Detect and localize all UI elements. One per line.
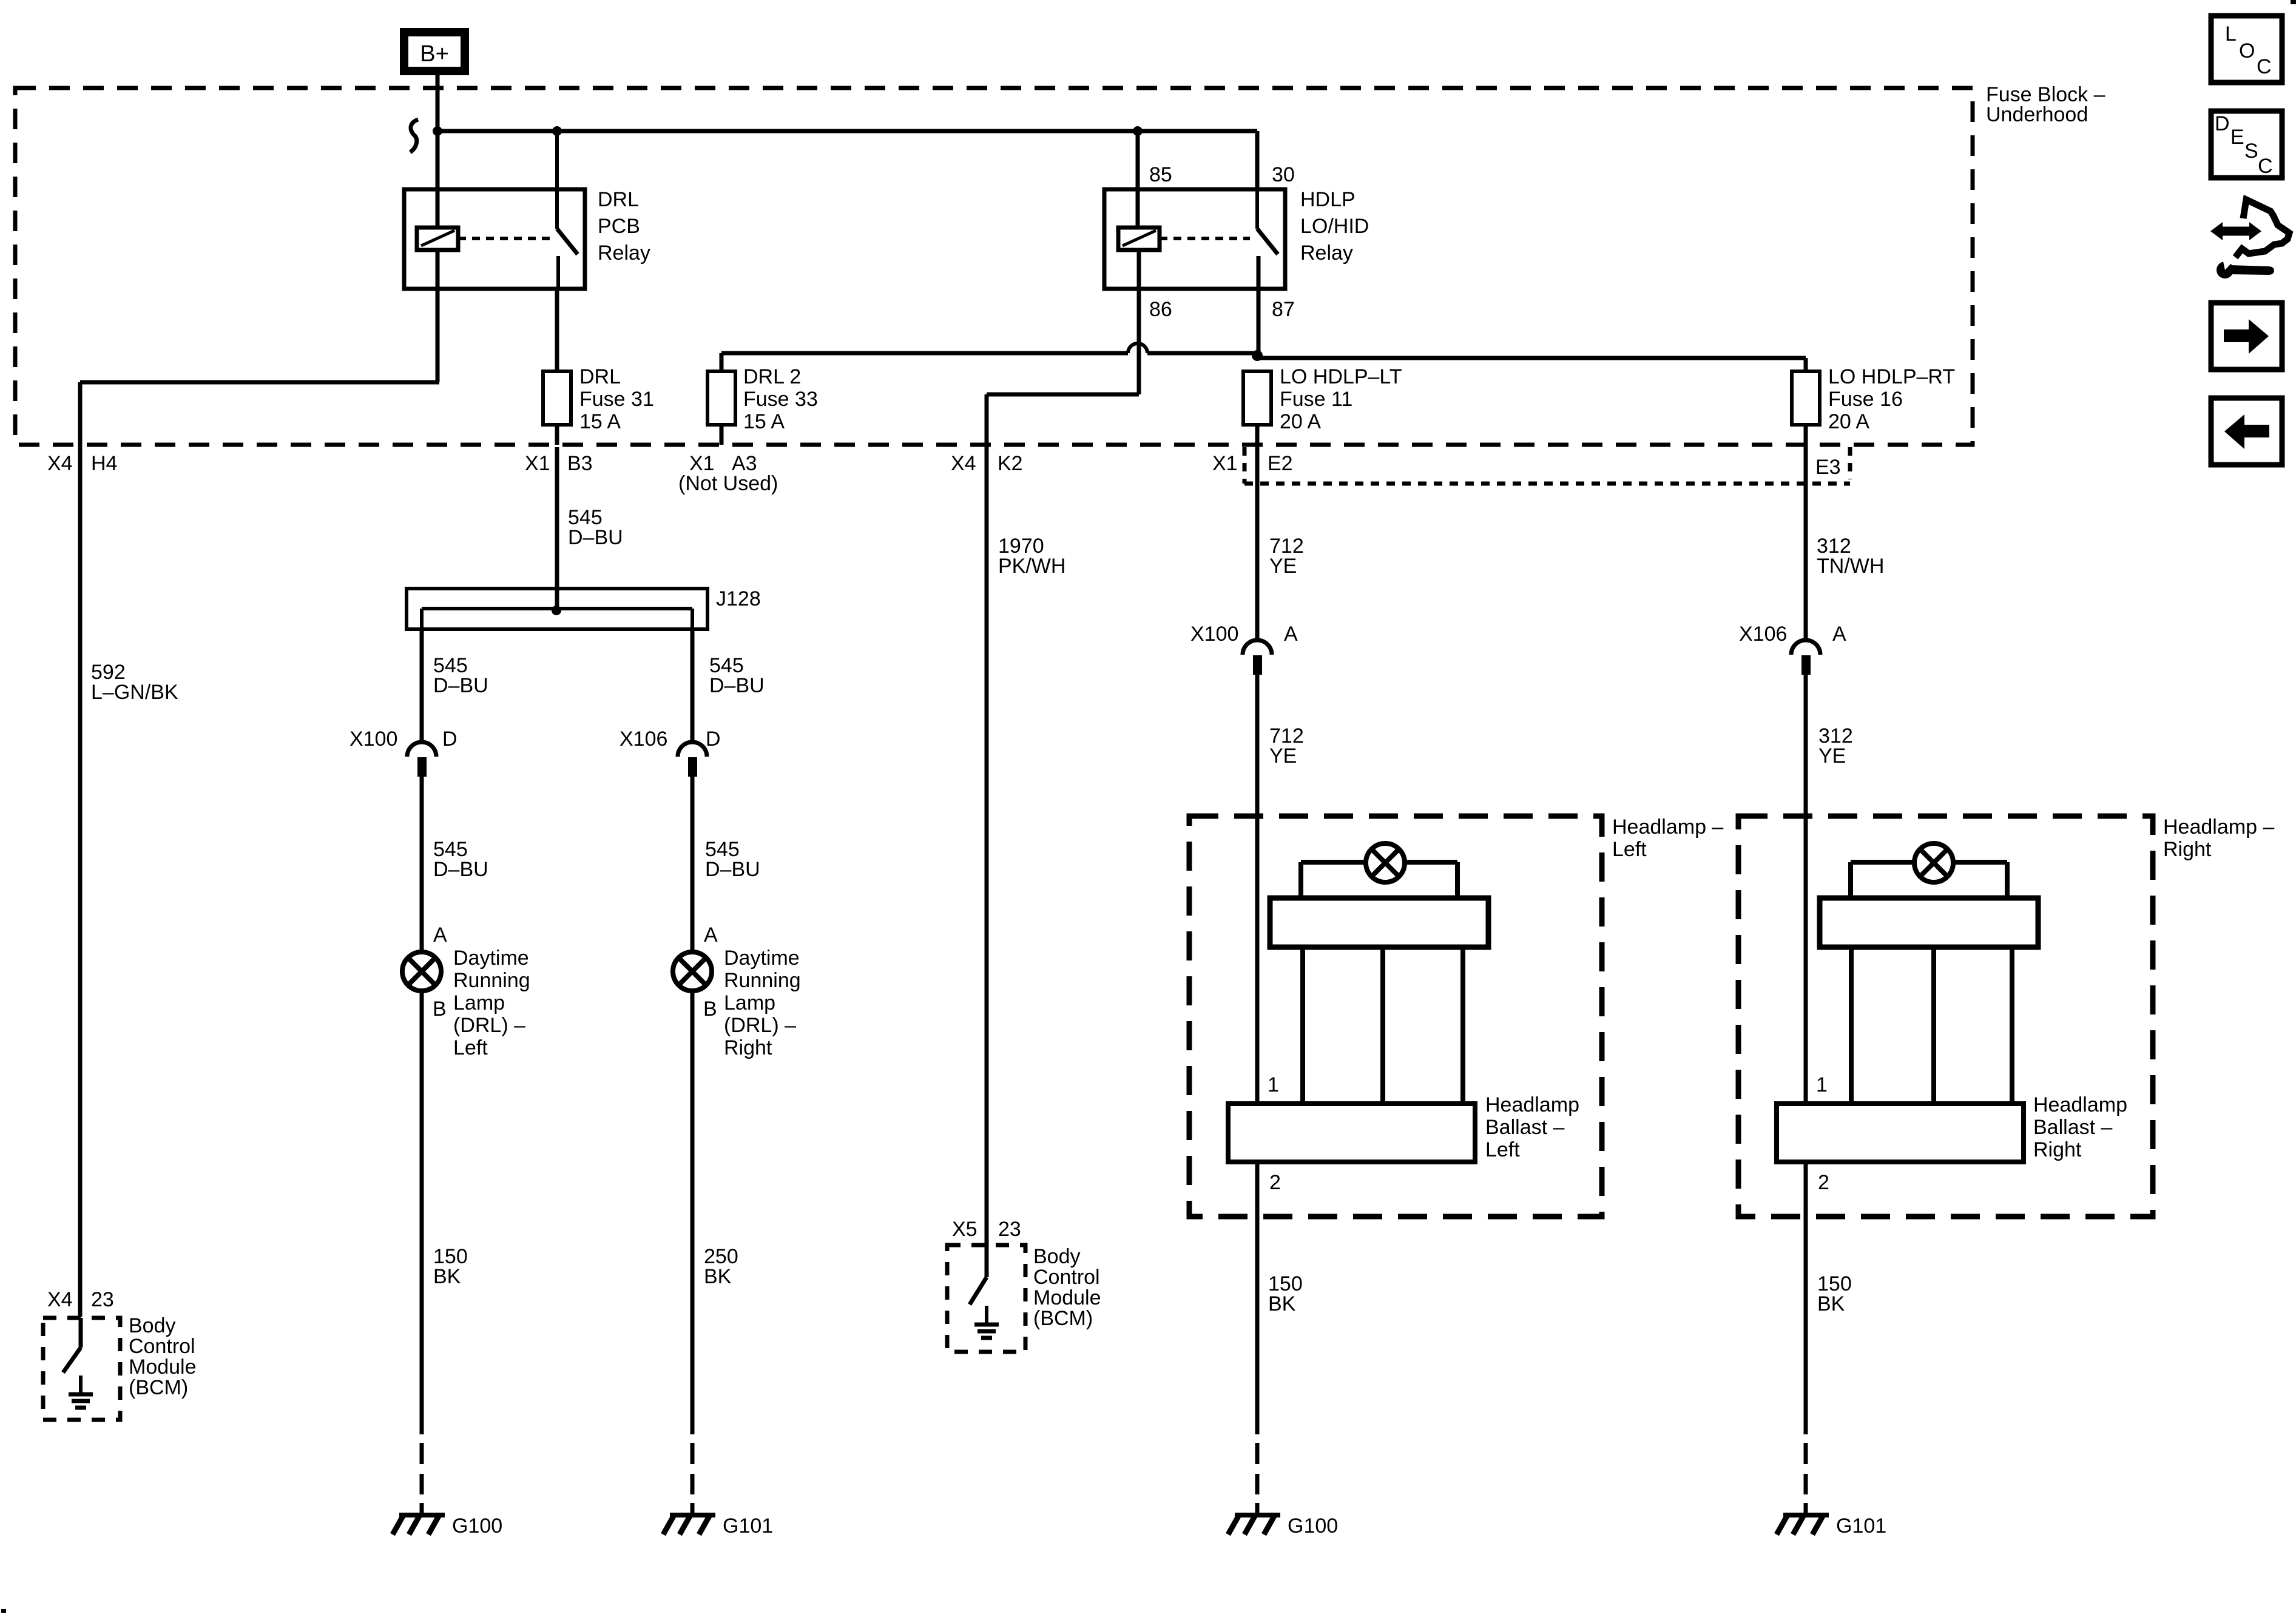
svg-text:Fuse 33: Fuse 33 bbox=[743, 388, 818, 411]
wire X106 A to headlamp ballast right bbox=[1804, 675, 1808, 1104]
svg-text:Right: Right bbox=[2163, 838, 2212, 861]
svg-text:X106: X106 bbox=[1739, 623, 1787, 646]
wire 312 TN/WH fuse16 to X106 A bbox=[1804, 447, 1808, 641]
wire X100 A to headlamp ballast left bbox=[1255, 675, 1260, 1104]
bus wire from B+ across top bbox=[437, 129, 1257, 133]
fuse DRL 2 Fuse 33 15A bbox=[707, 371, 735, 425]
svg-text:G100: G100 bbox=[1288, 1514, 1338, 1538]
svg-text:Body: Body bbox=[1033, 1245, 1081, 1268]
wire 250 BK DRL right to ground bbox=[690, 991, 695, 1434]
svg-text:G100: G100 bbox=[452, 1514, 502, 1538]
svg-text:DRL: DRL bbox=[579, 365, 621, 388]
svg-text:15 A: 15 A bbox=[579, 410, 621, 433]
connector breakout dotted box E2-E3 bbox=[1243, 447, 1247, 484]
svg-text:D–BU: D–BU bbox=[709, 674, 765, 697]
relay switch blade bbox=[1255, 131, 1259, 229]
svg-text:(BCM): (BCM) bbox=[1033, 1307, 1093, 1330]
svg-text:23: 23 bbox=[998, 1218, 1021, 1241]
svg-text:B: B bbox=[433, 998, 447, 1021]
svg-text:Lamp: Lamp bbox=[724, 991, 775, 1014]
svg-text:1: 1 bbox=[1816, 1073, 1828, 1096]
junction node DRL relay 30 feed bbox=[552, 126, 562, 136]
svg-text:A: A bbox=[1832, 623, 1846, 646]
svg-text:O: O bbox=[2239, 39, 2255, 62]
relay coil bbox=[1118, 228, 1160, 250]
connector X106 pin D bbox=[678, 742, 707, 757]
svg-text:X4: X4 bbox=[47, 452, 73, 475]
svg-text:D–BU: D–BU bbox=[433, 858, 488, 881]
BCM left internal switch bbox=[79, 1318, 83, 1348]
svg-text:Running: Running bbox=[453, 969, 530, 992]
svg-text:Module: Module bbox=[129, 1355, 197, 1379]
svg-text:Underhood: Underhood bbox=[1986, 103, 2088, 126]
svg-text:BK: BK bbox=[1817, 1292, 1845, 1315]
svg-text:BK: BK bbox=[704, 1265, 732, 1288]
wire DRL2 fuse feed from relay 87 junction bbox=[721, 351, 1128, 356]
headlamp ballast box bbox=[1228, 1104, 1475, 1162]
svg-text:LO HDLP–LT: LO HDLP–LT bbox=[1280, 365, 1402, 388]
fuse block underhood dashed box bbox=[15, 88, 1973, 445]
svg-text:A: A bbox=[433, 923, 447, 947]
BCM left internal ground bbox=[79, 1376, 83, 1394]
svg-text:20 A: 20 A bbox=[1280, 410, 1321, 433]
svg-text:HDLP: HDLP bbox=[1300, 188, 1356, 211]
wire 150 BK headlamp left to ground bbox=[1255, 1162, 1260, 1434]
wire 1970 PK/WH to BCM bbox=[985, 447, 989, 1246]
junction node at B+ bbox=[433, 126, 442, 136]
svg-text:Fuse 11: Fuse 11 bbox=[1280, 388, 1352, 411]
svg-text:X4: X4 bbox=[47, 1288, 73, 1311]
svg-text:C: C bbox=[2258, 155, 2273, 178]
splice hook symbol bbox=[410, 120, 418, 152]
wire HDLP 86 to X4 K2 (coil return) bbox=[1137, 250, 1141, 394]
svg-text:S: S bbox=[2244, 140, 2258, 163]
relay coil bbox=[417, 228, 458, 250]
svg-text:L–GN/BK: L–GN/BK bbox=[91, 681, 178, 704]
splice pack J128 bbox=[407, 589, 707, 629]
svg-text:30: 30 bbox=[1272, 163, 1295, 186]
svg-text:E2: E2 bbox=[1268, 452, 1293, 475]
wire X106 D to DRL lamp right bbox=[690, 777, 695, 952]
svg-text:A: A bbox=[704, 923, 718, 947]
svg-text:2: 2 bbox=[1818, 1171, 1829, 1194]
wire 150 BK DRL left to ground bbox=[420, 991, 424, 1434]
svg-text:85: 85 bbox=[1149, 163, 1172, 186]
svg-text:Body: Body bbox=[129, 1314, 176, 1337]
lamp Daytime Running Lamp DRL Left bbox=[402, 952, 441, 991]
relay box bbox=[404, 189, 585, 289]
headlamp dashed box (Headlamp – Right) bbox=[1738, 816, 2153, 1217]
svg-text:1: 1 bbox=[1268, 1073, 1279, 1096]
relay switch blade bbox=[555, 131, 559, 229]
battery feed B+ terminal bbox=[404, 32, 465, 71]
ground G101 left-branch bbox=[670, 1513, 715, 1517]
svg-text:X106: X106 bbox=[620, 727, 667, 751]
wire 150 BK headlamp right to ground bbox=[1804, 1162, 1808, 1434]
wire J128 to X106 D bbox=[690, 629, 695, 743]
svg-text:LO/HID: LO/HID bbox=[1300, 215, 1369, 238]
svg-text:Ballast –: Ballast – bbox=[1485, 1116, 1564, 1139]
svg-text:Fuse 16: Fuse 16 bbox=[1828, 388, 1903, 411]
svg-text:(DRL) –: (DRL) – bbox=[724, 1014, 796, 1037]
svg-text:BK: BK bbox=[433, 1265, 461, 1288]
svg-text:X1: X1 bbox=[1212, 452, 1238, 475]
svg-text:DRL: DRL bbox=[598, 188, 639, 211]
svg-text:E: E bbox=[2230, 126, 2244, 149]
connector X100 pin A bbox=[1243, 640, 1272, 655]
svg-text:2: 2 bbox=[1269, 1171, 1281, 1194]
icon car diagnosis with wrench bbox=[2235, 200, 2289, 257]
HID burner lamp element bbox=[1366, 843, 1405, 882]
svg-text:Headlamp: Headlamp bbox=[2033, 1093, 2127, 1116]
svg-text:(BCM): (BCM) bbox=[129, 1376, 188, 1399]
svg-text:Relay: Relay bbox=[598, 241, 650, 265]
junction node relay 87 output bbox=[1252, 350, 1263, 361]
svg-text:Headlamp: Headlamp bbox=[1485, 1093, 1579, 1116]
svg-text:YE: YE bbox=[1269, 744, 1297, 768]
svg-text:Control: Control bbox=[129, 1335, 195, 1358]
svg-text:D: D bbox=[706, 727, 721, 751]
ground lead dashed G101 bbox=[690, 1443, 695, 1464]
svg-text:TN/WH: TN/WH bbox=[1817, 555, 1884, 578]
icon box arrow left bbox=[2211, 398, 2282, 465]
ground lead dashed headlamp left bbox=[1255, 1443, 1260, 1464]
svg-text:Left: Left bbox=[453, 1036, 488, 1059]
svg-text:Lamp: Lamp bbox=[453, 991, 505, 1014]
svg-text:87: 87 bbox=[1272, 298, 1295, 321]
ground G101 right-instance bbox=[1783, 1513, 1829, 1517]
svg-text:B+: B+ bbox=[420, 41, 449, 67]
svg-text:D–BU: D–BU bbox=[568, 526, 623, 549]
relay coil-switch dashed link bbox=[458, 237, 550, 240]
HID burner cap bbox=[1270, 898, 1488, 947]
svg-text:PK/WH: PK/WH bbox=[998, 555, 1065, 578]
svg-text:X1: X1 bbox=[525, 452, 550, 475]
icon box DESC bbox=[2211, 111, 2282, 178]
wire 592 L-GN/BK to BCM bbox=[78, 447, 83, 1317]
connector X106 pin A bbox=[1791, 640, 1820, 655]
svg-text:Module: Module bbox=[1033, 1286, 1101, 1309]
svg-text:H4: H4 bbox=[91, 452, 117, 475]
svg-text:DRL 2: DRL 2 bbox=[743, 365, 801, 388]
wire X100 D to DRL lamp left bbox=[420, 777, 424, 952]
svg-text:J128: J128 bbox=[716, 587, 761, 610]
svg-text:E3: E3 bbox=[1815, 456, 1841, 479]
svg-text:(DRL) –: (DRL) – bbox=[453, 1014, 525, 1037]
svg-text:YE: YE bbox=[1818, 744, 1846, 768]
svg-text:B: B bbox=[703, 998, 717, 1021]
svg-text:Left: Left bbox=[1612, 838, 1647, 861]
page corner dot bottom left bbox=[1, 1609, 6, 1613]
HID burner tubes bbox=[1849, 947, 1854, 1104]
fuse LO HDLP-RT Fuse 16 20A bbox=[1792, 371, 1820, 425]
icon box arrow right bbox=[2211, 303, 2282, 370]
svg-text:L: L bbox=[2225, 22, 2237, 46]
ground lead dashed headlamp right bbox=[1804, 1443, 1808, 1464]
svg-text:C: C bbox=[2257, 55, 2272, 78]
junction node HDLP relay 85 feed bbox=[1133, 126, 1143, 136]
svg-text:LO HDLP–RT: LO HDLP–RT bbox=[1828, 365, 1955, 388]
fuse LO HDLP-LT Fuse 11 20A bbox=[1243, 371, 1271, 425]
svg-text:D: D bbox=[442, 727, 458, 751]
svg-text:Fuse 31: Fuse 31 bbox=[579, 388, 654, 411]
svg-text:Right: Right bbox=[724, 1036, 772, 1059]
icon box LOC bbox=[2211, 16, 2282, 83]
HID burner cap bbox=[1820, 898, 2038, 947]
wire 712 YE fuse11 to X100 A bbox=[1255, 447, 1260, 641]
wire junction to fuse 16 feed bbox=[1257, 356, 1806, 360]
BCM center internal ground bbox=[985, 1306, 988, 1325]
wire B+ down to bus bbox=[436, 75, 440, 131]
svg-text:(Not Used): (Not Used) bbox=[678, 472, 778, 495]
relay switch lower contact bbox=[1257, 256, 1260, 289]
svg-text:X4: X4 bbox=[951, 452, 976, 475]
wire bus to DRL relay coil bbox=[436, 131, 440, 228]
wire bus corner to HDLP relay 30 bbox=[1255, 131, 1260, 189]
HID burner lamp element bbox=[1914, 843, 1953, 882]
svg-text:YE: YE bbox=[1269, 555, 1297, 578]
svg-text:Control: Control bbox=[1033, 1266, 1100, 1289]
svg-text:D: D bbox=[2215, 112, 2230, 135]
headlamp dashed box (Headlamp – Left) bbox=[1189, 816, 1602, 1217]
svg-text:15 A: 15 A bbox=[743, 410, 785, 433]
svg-text:D–BU: D–BU bbox=[705, 858, 760, 881]
wire 545 D-BU fuse31 to J128 bbox=[555, 447, 559, 610]
svg-text:23: 23 bbox=[91, 1288, 114, 1311]
wire DRL coil to fuse block exit bbox=[436, 250, 440, 382]
BCM center internal switch bbox=[985, 1245, 989, 1277]
wire J128 to X100 D bbox=[420, 629, 424, 743]
svg-text:X5: X5 bbox=[952, 1218, 977, 1241]
svg-text:X100: X100 bbox=[349, 727, 397, 751]
svg-text:G101: G101 bbox=[723, 1514, 773, 1538]
svg-text:Running: Running bbox=[724, 969, 801, 992]
svg-text:Right: Right bbox=[2033, 1138, 2082, 1161]
svg-text:B3: B3 bbox=[567, 452, 593, 475]
svg-text:Daytime: Daytime bbox=[724, 947, 800, 970]
wire DRL relay switch to Fuse 31 bbox=[555, 289, 559, 371]
svg-text:Daytime: Daytime bbox=[453, 947, 529, 970]
svg-text:PCB: PCB bbox=[598, 215, 640, 238]
ground G100 right-instance bbox=[1235, 1513, 1280, 1517]
svg-text:K2: K2 bbox=[998, 452, 1023, 475]
svg-text:BK: BK bbox=[1268, 1292, 1296, 1315]
page corner tick top right bbox=[2291, 0, 2296, 4]
svg-text:Headlamp –: Headlamp – bbox=[1612, 815, 1723, 839]
wire bus to HDLP relay coil 85 bbox=[1136, 131, 1140, 228]
svg-text:86: 86 bbox=[1149, 298, 1172, 321]
svg-text:Relay: Relay bbox=[1300, 241, 1353, 265]
svg-text:G101: G101 bbox=[1836, 1514, 1886, 1538]
headlamp ballast box bbox=[1777, 1104, 2024, 1162]
junction node on J128 bus bbox=[552, 606, 561, 615]
svg-text:X100: X100 bbox=[1190, 623, 1238, 646]
svg-text:Headlamp –: Headlamp – bbox=[2163, 815, 2274, 839]
svg-text:Left: Left bbox=[1485, 1138, 1520, 1161]
relay box bbox=[1104, 189, 1285, 289]
svg-text:A: A bbox=[1284, 623, 1298, 646]
connector X100 pin D bbox=[407, 742, 436, 757]
svg-text:Ballast –: Ballast – bbox=[2033, 1116, 2112, 1139]
wire HDLP 87 lower contact to junction bbox=[1257, 256, 1261, 356]
relay switch lower contact bbox=[556, 256, 560, 289]
svg-text:D–BU: D–BU bbox=[433, 674, 488, 697]
svg-text:20 A: 20 A bbox=[1828, 410, 1869, 433]
HID burner tubes bbox=[1300, 947, 1305, 1104]
relay coil-switch dashed link bbox=[1160, 237, 1250, 240]
lamp Daytime Running Lamp DRL Right bbox=[673, 952, 712, 991]
ground lead dashed left G100 bbox=[420, 1443, 424, 1464]
ground G100 left bbox=[399, 1513, 445, 1517]
fuse DRL Fuse 31 15A bbox=[543, 371, 571, 425]
